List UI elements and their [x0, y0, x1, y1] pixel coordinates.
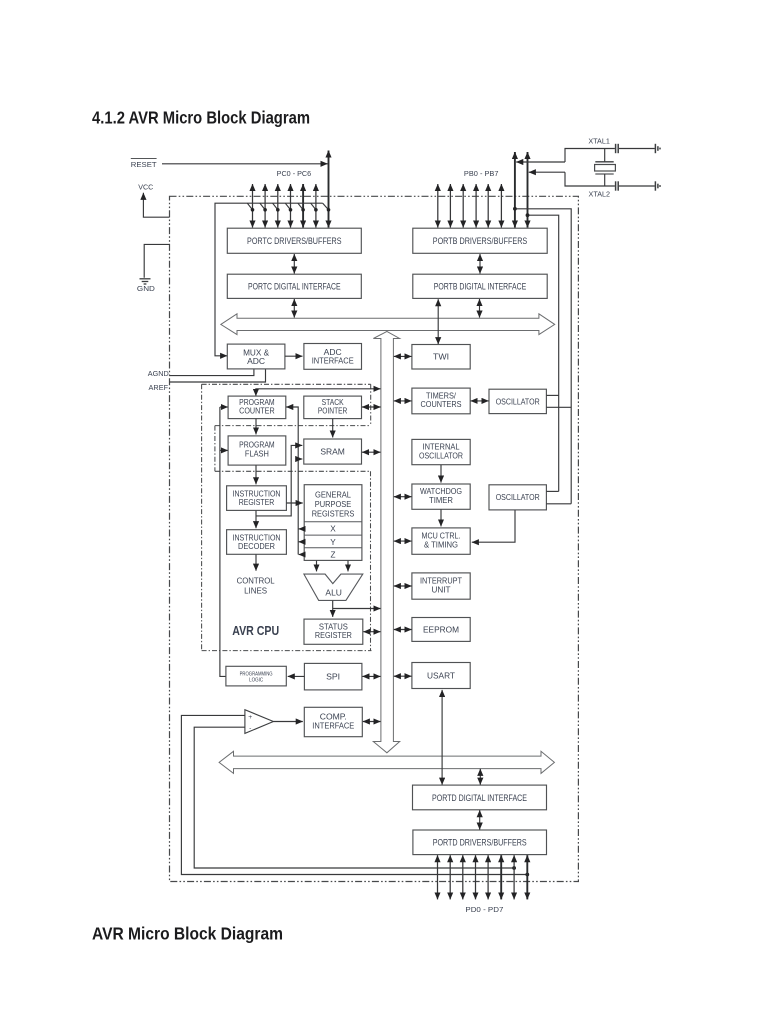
svg-text:PROGRAMMING: PROGRAMMING: [240, 671, 273, 677]
pin PC3: [290, 184, 292, 228]
status register box: [304, 619, 363, 644]
wire bus-EEPROM: [394, 629, 412, 631]
wire programming logic riser: [220, 407, 226, 676]
pin PD0: [437, 855, 439, 899]
wire decoder to control lines: [255, 555, 257, 571]
ALU: [304, 574, 363, 600]
svg-text:TIMER: TIMER: [429, 496, 453, 505]
pin PD1: [449, 855, 451, 899]
wire GPR to ALU right: [347, 561, 349, 572]
stack pointer box: [304, 396, 362, 419]
SRAM box: [304, 439, 362, 464]
wire C1 to ground: [619, 148, 655, 150]
ground symbol: [140, 279, 151, 284]
pin PD7: [526, 855, 528, 899]
pin PC1: [264, 184, 266, 228]
oscillator box (clock): [489, 485, 546, 510]
svg-text:PD0 - PD7: PD0 - PD7: [465, 905, 503, 914]
wire analog mux bus to MUX&ADC: [215, 203, 323, 356]
svg-text:OSCILLATOR: OSCILLATOR: [496, 493, 540, 502]
PORTB drivers/buffers box: [413, 228, 547, 253]
svg-text:INSTRUCTION: INSTRUCTION: [233, 533, 281, 542]
wire PORTB interface to TWI: [437, 299, 439, 344]
pin PB2: [462, 184, 464, 228]
svg-text:LINES: LINES: [244, 587, 268, 596]
wire comparator + loop to PD7: [181, 715, 529, 876]
wire RESET to PC6 pin: [162, 163, 328, 165]
svg-text:PURPOSE: PURPOSE: [315, 500, 352, 509]
svg-text:ALU: ALU: [325, 588, 342, 597]
svg-text:INTERNAL: INTERNAL: [423, 443, 460, 452]
wire bus-interrupt unit: [394, 585, 412, 587]
wire GND into border: [144, 244, 170, 277]
svg-text:-: -: [249, 725, 251, 732]
MUX & ADC box: [227, 344, 285, 369]
PORTD digital interface box: [413, 785, 547, 810]
wire X register tap: [299, 528, 305, 530]
watchdog timer box: [412, 484, 470, 509]
wire bus to PORTD interface: [479, 769, 481, 785]
AVR CPU dashed box right edge upper segment: [370, 384, 372, 425]
svg-text:TWI: TWI: [433, 353, 449, 362]
svg-text:ADC: ADC: [247, 357, 265, 366]
pin PC6/RESET: [328, 151, 330, 228]
svg-text:STACK: STACK: [322, 398, 344, 407]
capacitor C1: [616, 144, 619, 153]
wire program counter to program flash: [255, 419, 257, 435]
svg-text:STATUS: STATUS: [319, 622, 348, 631]
pin PD3: [475, 855, 477, 899]
svg-text:LOGIC: LOGIC: [249, 678, 263, 684]
svg-text:XTAL1: XTAL1: [588, 138, 610, 146]
capacitor C2: [616, 181, 619, 190]
svg-text:& TIMING: & TIMING: [424, 540, 458, 549]
program flash box: [228, 436, 286, 465]
wire mux tap PC3: [285, 203, 292, 211]
svg-text:INTERFACE: INTERFACE: [312, 357, 354, 366]
AVR CPU dashed box right edge lower segment: [370, 471, 372, 650]
wire stack pointer to SRAM: [332, 419, 334, 438]
svg-text:RESET: RESET: [131, 160, 157, 169]
svg-text:WATCHDOG: WATCHDOG: [420, 487, 462, 496]
wire PORTB interface-bus: [479, 299, 481, 318]
pin PB5: [500, 184, 502, 228]
oscillator box (timers): [489, 389, 546, 413]
svg-text:GENERAL: GENERAL: [315, 491, 351, 500]
svg-text:SRAM: SRAM: [320, 448, 345, 457]
wire mux tap PC2: [273, 203, 280, 211]
wire AGND: [170, 369, 254, 375]
general purpose registers box: [304, 485, 362, 561]
pin PD4: [487, 855, 489, 899]
svg-text:PORTD DRIVERS/BUFFERS: PORTD DRIVERS/BUFFERS: [433, 838, 527, 848]
ground (top right): [655, 144, 660, 153]
timers/counters box: [412, 388, 470, 414]
svg-text:COMP.: COMP.: [320, 713, 347, 722]
wire into program flash left: [220, 449, 228, 451]
pin PC4: [302, 184, 304, 228]
wire AREF: [170, 369, 266, 382]
wire bus-mcu ctrl: [394, 540, 412, 542]
wire direct addressing to SRAM: [256, 445, 302, 516]
pin PD5: [500, 855, 502, 899]
wire ALU to bus: [333, 608, 381, 610]
instruction decoder box: [227, 530, 287, 555]
instruction register box: [227, 486, 287, 511]
wire SPI to programming logic: [288, 675, 305, 677]
SPI box: [304, 663, 362, 690]
wire program counter to X/Y/Z registers: [286, 407, 298, 555]
svg-text:REGISTERS: REGISTERS: [312, 510, 355, 519]
wire oscillator stub XTAL1: [546, 406, 571, 408]
data bus horizontal upper: [221, 314, 555, 335]
wire bus to program counter: [256, 389, 381, 396]
wire XTAL1 feed to oscillators: [513, 207, 571, 504]
wire clock osc stub XTAL1: [546, 503, 571, 505]
wire mux tap PC0: [247, 203, 254, 211]
wire VCC into border: [143, 193, 169, 217]
wire mux tap PC6: [323, 203, 331, 211]
pin PC0: [252, 184, 254, 228]
wire XTAL2 net: [565, 172, 615, 186]
TWI box: [412, 345, 470, 370]
wire Y register tap: [299, 541, 305, 543]
pin PB3: [475, 184, 477, 228]
svg-text:DECODER: DECODER: [238, 542, 275, 551]
svg-text:PORTB DRIVERS/BUFFERS: PORTB DRIVERS/BUFFERS: [433, 236, 528, 246]
pin PB0: [437, 184, 439, 228]
programming logic box: [226, 666, 286, 686]
wire PORTB drivers-interface: [479, 254, 481, 274]
wire C2 to ground: [619, 185, 655, 187]
svg-text:USART: USART: [427, 671, 455, 680]
wire XTAL1 into PB6: [516, 161, 565, 163]
mcu ctrl & timing box: [412, 528, 470, 554]
wire SPI-bus: [362, 675, 380, 677]
PORTC digital interface box: [227, 274, 361, 298]
svg-text:PB0 - PB7: PB0 - PB7: [464, 169, 499, 178]
svg-text:GND: GND: [137, 284, 155, 293]
wire program flash to instruction register: [255, 465, 257, 484]
pin PB1: [449, 184, 451, 228]
svg-text:INTERRUPT: INTERRUPT: [420, 577, 462, 586]
comparator: [245, 710, 274, 734]
ground (bottom right): [655, 181, 660, 190]
pin PC5: [315, 184, 317, 228]
wire status register-bus: [363, 631, 380, 633]
svg-text:INSTRUCTION: INSTRUCTION: [233, 489, 281, 498]
svg-text:AREF: AREF: [149, 383, 169, 392]
wire bus-timers: [394, 400, 412, 402]
pin PC2: [277, 184, 279, 228]
pin PD6: [513, 855, 515, 899]
wire PORTC interface-bus: [293, 299, 295, 318]
wire SRAM-bus: [362, 451, 381, 453]
svg-text:EEPROM: EEPROM: [423, 626, 459, 635]
wire timers-oscillator: [471, 400, 489, 402]
wire ALU to status register: [332, 601, 334, 617]
data bus vertical: [373, 331, 399, 752]
PORTD drivers/buffers box: [413, 830, 547, 855]
pin PD2: [462, 855, 464, 899]
svg-text:CONTROL: CONTROL: [237, 577, 275, 586]
svg-text:PORTC DIGITAL INTERFACE: PORTC DIGITAL INTERFACE: [248, 282, 341, 292]
svg-text:X: X: [330, 524, 336, 533]
wire stack pointer-bus: [362, 406, 381, 408]
svg-text:XTAL2: XTAL2: [589, 191, 611, 199]
interrupt unit box: [412, 573, 470, 599]
AVR CPU dashed box left edge: [201, 384, 203, 650]
svg-text:Y: Y: [330, 538, 336, 547]
comp interface box: [304, 707, 362, 736]
PORTC drivers/buffers box: [227, 228, 361, 253]
internal oscillator box: [412, 439, 470, 464]
AVR CPU dashed box bottom edge: [202, 650, 372, 652]
wire Z register tap: [299, 554, 305, 556]
svg-text:POINTER: POINTER: [318, 407, 348, 416]
wire comparator output: [273, 721, 302, 723]
svg-text:REGISTER: REGISTER: [239, 498, 275, 507]
wire oscillator stub XTAL2: [546, 394, 558, 396]
svg-text:PROGRAM: PROGRAM: [239, 441, 275, 450]
svg-text:Z: Z: [330, 550, 335, 559]
wire comparator - loop to PD6: [194, 727, 516, 870]
USART box: [412, 663, 470, 689]
EEPROM box: [412, 618, 470, 642]
svg-text:PROGRAM: PROGRAM: [239, 398, 275, 407]
wire mux tap PC4: [298, 203, 305, 211]
PORTB digital interface box: [413, 274, 547, 298]
pin PB4: [487, 184, 489, 228]
svg-text:SPI: SPI: [326, 673, 340, 682]
chip outer dash-dot border: [170, 196, 579, 881]
svg-text:ADC: ADC: [324, 348, 342, 357]
wire mux tap PC5: [311, 203, 318, 211]
wire X/Y/Z line into SRAM: [298, 458, 302, 460]
program counter box: [228, 396, 286, 419]
wire MUX to ADC interface: [285, 355, 303, 357]
data bus horizontal lower: [219, 751, 554, 773]
svg-text:AGND: AGND: [148, 369, 169, 378]
svg-text:4.1.2 AVR Micro Block Diagram: 4.1.2 AVR Micro Block Diagram: [92, 108, 310, 128]
svg-text:UNIT: UNIT: [432, 585, 451, 594]
svg-text:MCU CTRL.: MCU CTRL.: [422, 532, 461, 541]
wire mux tap PC1: [260, 203, 267, 211]
svg-text:VCC: VCC: [138, 182, 153, 191]
svg-text:COUNTER: COUNTER: [239, 407, 275, 416]
svg-text:PORTC DRIVERS/BUFFERS: PORTC DRIVERS/BUFFERS: [247, 236, 342, 246]
wire USART to PORTD interface: [441, 690, 443, 785]
wire bus-TWI: [394, 355, 412, 357]
wire PORTC drivers-interface: [293, 254, 295, 274]
memory dashed divider upper: [215, 425, 371, 427]
svg-text:PC0 - PC6: PC0 - PC6: [277, 169, 312, 178]
wire XTAL2 feed to oscillators: [526, 213, 559, 491]
memory dashed left edge: [214, 426, 216, 472]
svg-text:AVR Micro Block Diagram: AVR Micro Block Diagram: [92, 924, 283, 944]
svg-text:PORTB DIGITAL INTERFACE: PORTB DIGITAL INTERFACE: [434, 282, 527, 292]
wire watchdog to mcu ctrl: [440, 510, 442, 527]
pin PB6/XTAL1: [514, 152, 516, 228]
svg-text:TIMERS/: TIMERS/: [426, 391, 457, 400]
svg-text:PORTD DIGITAL INTERFACE: PORTD DIGITAL INTERFACE: [432, 793, 527, 803]
wire XTAL2 into PB7: [529, 171, 565, 173]
wire clock osc stub XTAL2: [546, 490, 558, 492]
wire XTAL1 net: [565, 149, 615, 163]
wire PORTD interface-drivers: [479, 810, 481, 829]
svg-text:INTERFACE: INTERFACE: [312, 721, 354, 730]
svg-text:OSCILLATOR: OSCILLATOR: [419, 451, 463, 460]
svg-text:COUNTERS: COUNTERS: [421, 400, 462, 409]
wire into program counter left: [220, 406, 228, 408]
svg-text:FLASH: FLASH: [245, 450, 269, 459]
wire instruction register to decoder: [255, 511, 257, 529]
wire internal osc to watchdog: [440, 465, 442, 483]
svg-text:AVR CPU: AVR CPU: [232, 624, 279, 638]
crystal Y1: [595, 149, 616, 187]
wire comp interface-bus: [363, 721, 381, 723]
svg-text:REGISTER: REGISTER: [315, 631, 352, 640]
wire instruction register to GPR: [286, 502, 302, 504]
wire GPR to ALU left: [316, 561, 318, 572]
ADC interface box: [304, 344, 362, 370]
svg-text:+: +: [248, 714, 252, 721]
wire bus-watchdog: [394, 496, 412, 498]
svg-text:OSCILLATOR: OSCILLATOR: [496, 397, 540, 406]
label CONTROL LINES: [237, 577, 275, 596]
AVR CPU dashed box top edge: [202, 383, 371, 385]
memory dashed divider lower: [215, 470, 371, 472]
RESET label: [131, 159, 157, 169]
svg-text:MUX &: MUX &: [243, 348, 270, 357]
wire bus-USART: [394, 675, 412, 677]
wire clock osc to mcu ctrl: [472, 510, 515, 542]
pin PB7/XTAL2: [527, 152, 529, 228]
